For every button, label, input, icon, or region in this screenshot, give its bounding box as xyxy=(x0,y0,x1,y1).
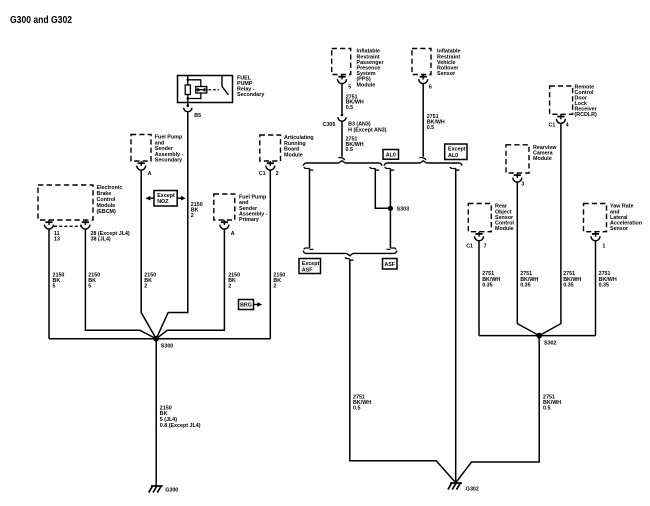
relay coil branch wire xyxy=(188,80,201,99)
relay resistor xyxy=(185,85,190,95)
svg-text:C1: C1 xyxy=(466,243,473,249)
svg-text:ASF: ASF xyxy=(384,262,395,268)
svg-text:2: 2 xyxy=(273,283,276,289)
svg-text:Module: Module xyxy=(533,156,552,162)
connector EBCM left xyxy=(48,220,50,225)
svg-text:AL0: AL0 xyxy=(386,153,396,159)
svg-text:G300: G300 xyxy=(165,487,178,493)
connector A (FP primary) xyxy=(223,220,225,225)
svg-text:C305: C305 xyxy=(323,122,336,128)
module Rear Object Sensor Control Module xyxy=(468,204,491,232)
svg-text:2: 2 xyxy=(276,171,279,177)
svg-text:4: 4 xyxy=(566,122,569,128)
splice S302 xyxy=(536,333,542,339)
arrow left to FP secondary wire xyxy=(150,197,154,199)
svg-text:Module: Module xyxy=(357,82,376,88)
wire d4 Except AL0 to G302 xyxy=(455,168,457,482)
drop d1 foot xyxy=(304,248,310,250)
connector RCDLR C1 xyxy=(560,114,562,119)
svg-text:Module: Module xyxy=(495,226,514,232)
wire PPS to C305 xyxy=(341,84,343,114)
connector A (FP secondary) xyxy=(140,161,142,166)
svg-text:Primary: Primary xyxy=(239,217,259,223)
drop d3 foot xyxy=(390,248,396,250)
drop hook d2 (AL0 branch to S303) xyxy=(370,167,376,169)
option box Except NOZ xyxy=(154,191,177,207)
svg-text:0.5: 0.5 xyxy=(353,406,360,412)
bus ASF center chevron xyxy=(347,252,353,254)
connector C1 (ARB) xyxy=(269,161,271,166)
svg-text:0.35: 0.35 xyxy=(563,283,573,289)
option box Except ASF xyxy=(299,259,321,274)
bus left feed chevron xyxy=(339,162,345,164)
wire d1 vertical xyxy=(309,168,311,248)
svg-text:0.35: 0.35 xyxy=(599,283,609,289)
svg-text:2: 2 xyxy=(191,213,194,219)
wire EBCM pin11 to S300 xyxy=(48,229,50,339)
drop hook d3 (ASF branch) xyxy=(385,167,391,169)
svg-text:38 (JL4): 38 (JL4) xyxy=(91,237,111,243)
connector rear object C1 xyxy=(478,232,480,237)
relay junction dot top xyxy=(187,79,190,82)
svg-text:5: 5 xyxy=(88,283,91,289)
arrow right to relay wire xyxy=(177,197,181,199)
svg-text:(EBCM): (EBCM) xyxy=(97,209,117,215)
svg-text:1: 1 xyxy=(602,243,605,249)
relay switch contact xyxy=(221,76,223,87)
svg-text:ASF: ASF xyxy=(302,267,313,273)
svg-text:S303: S303 xyxy=(397,207,410,213)
svg-text:7: 7 xyxy=(484,243,487,249)
svg-text:Except: Except xyxy=(302,261,320,267)
module Fuel Pump and Sender Assembly - Primary xyxy=(214,194,235,220)
splice S300 xyxy=(153,336,159,342)
svg-text:0.5: 0.5 xyxy=(346,105,353,111)
svg-text:0.5: 0.5 xyxy=(543,406,550,412)
module Articulating Running Board Module xyxy=(260,135,281,161)
svg-text:S300: S300 xyxy=(161,343,174,349)
ground G300 xyxy=(151,485,163,487)
svg-text:C1: C1 xyxy=(259,171,266,177)
svg-text:G300 and G302: G300 and G302 xyxy=(10,15,72,26)
wire S300 to G300 xyxy=(155,339,157,486)
relay pin stub xyxy=(187,103,189,105)
wire rear object to S302 xyxy=(478,241,480,336)
wire EBCM pin28 to S300 xyxy=(85,229,156,339)
drop hook d4 (Except AL0 branch) xyxy=(450,167,456,169)
connector B5 xyxy=(187,104,190,107)
svg-text:H (Except AN3): H (Except AN3) xyxy=(348,127,387,133)
svg-text:B5: B5 xyxy=(194,113,201,119)
drop hook d1 (Except ASF branch) xyxy=(304,167,310,169)
module Fuel Pump and Sender Assembly - Secondary xyxy=(131,135,151,162)
wire relay B5 to S300 xyxy=(156,112,188,339)
module Rearview Camera xyxy=(506,145,529,173)
wire RCDLR to S302 xyxy=(539,124,561,336)
svg-text:2: 2 xyxy=(144,283,147,289)
svg-text:S302: S302 xyxy=(544,340,557,346)
svg-text:0.5: 0.5 xyxy=(427,125,434,131)
svg-text:Secondary: Secondary xyxy=(155,158,182,164)
svg-text:NOZ: NOZ xyxy=(157,199,169,205)
svg-text:0.8 (Except JL4): 0.8 (Except JL4) xyxy=(160,423,201,429)
wire FP primary to S300 xyxy=(156,229,224,339)
wire FP secondary to S300 xyxy=(141,170,156,339)
relay coil U1 xyxy=(196,87,207,94)
option box BRG xyxy=(239,300,254,310)
connector yaw pin 1 xyxy=(595,232,597,237)
connector EBCM right xyxy=(84,220,86,225)
bus right (feed from rollover) xyxy=(387,162,460,164)
svg-text:5: 5 xyxy=(53,283,56,289)
svg-text:AL0: AL0 xyxy=(448,153,458,159)
svg-text:Secondary: Secondary xyxy=(237,92,264,98)
svg-text:BRG: BRG xyxy=(240,303,252,309)
wire ASF bus to G302 xyxy=(350,259,456,483)
bus ASF xyxy=(306,252,395,254)
wire C305 to left bus xyxy=(341,121,343,157)
svg-text:A: A xyxy=(148,171,152,177)
svg-text:(RCDLR): (RCDLR) xyxy=(575,112,597,118)
svg-text:Module: Module xyxy=(284,152,303,158)
svg-text:Except: Except xyxy=(448,147,466,153)
svg-text:2: 2 xyxy=(228,283,231,289)
module Yaw Rate Sensor xyxy=(584,204,607,232)
arrow right to ARB wire xyxy=(254,304,258,306)
option box Except AL0 xyxy=(445,144,467,160)
wire rearview to S302 xyxy=(517,182,539,335)
wire S300 bus horizontal xyxy=(49,338,270,340)
svg-text:3: 3 xyxy=(521,181,524,187)
EBCM connector dashed link xyxy=(54,225,81,227)
wire ARB to S300 xyxy=(269,170,271,339)
relay dashed actuator link xyxy=(209,89,220,91)
connector C305 xyxy=(341,114,344,117)
bus left (feed from C305) xyxy=(306,162,380,164)
module Inflatable Restraint Vehicle Rollover Sensor xyxy=(412,49,431,75)
module RCDLR xyxy=(550,86,573,114)
relay box Fuel Pump Relay - Secondary xyxy=(178,76,233,103)
svg-text:13: 13 xyxy=(54,237,60,243)
connector rollover pin 6 xyxy=(422,75,424,80)
ground G302 xyxy=(450,482,462,484)
wire d3 vertical xyxy=(389,168,391,248)
bus right feed chevron xyxy=(420,162,426,164)
wire S302 to G302 xyxy=(456,336,540,483)
connector PPS pin 5 xyxy=(341,75,343,80)
module EBCM xyxy=(38,185,93,220)
connector rearview pin 3 xyxy=(516,173,518,178)
svg-text:0.35: 0.35 xyxy=(520,283,530,289)
wire rollover to right bus xyxy=(422,84,424,157)
svg-text:0.35: 0.35 xyxy=(482,283,492,289)
svg-text:C1: C1 xyxy=(549,122,556,128)
splice S303 xyxy=(388,206,393,211)
svg-text:Sensor: Sensor xyxy=(437,71,455,77)
wire yaw to S302 xyxy=(595,241,597,336)
module Inflatable Restraint PPS xyxy=(332,49,351,75)
wire d2 to S303 xyxy=(375,168,390,208)
svg-text:5: 5 xyxy=(348,85,351,91)
relay pin 86 wire xyxy=(187,76,189,103)
svg-text:6: 6 xyxy=(429,85,432,91)
svg-text:Sensor: Sensor xyxy=(610,226,628,232)
option box ASF xyxy=(383,259,398,270)
svg-text:0.5: 0.5 xyxy=(346,147,353,153)
svg-text:G302: G302 xyxy=(466,487,479,493)
wire S302 bus horizontal xyxy=(479,335,596,337)
option box AL0 xyxy=(383,150,399,160)
svg-text:A: A xyxy=(231,231,235,237)
relay junction dot bottom xyxy=(187,97,190,100)
